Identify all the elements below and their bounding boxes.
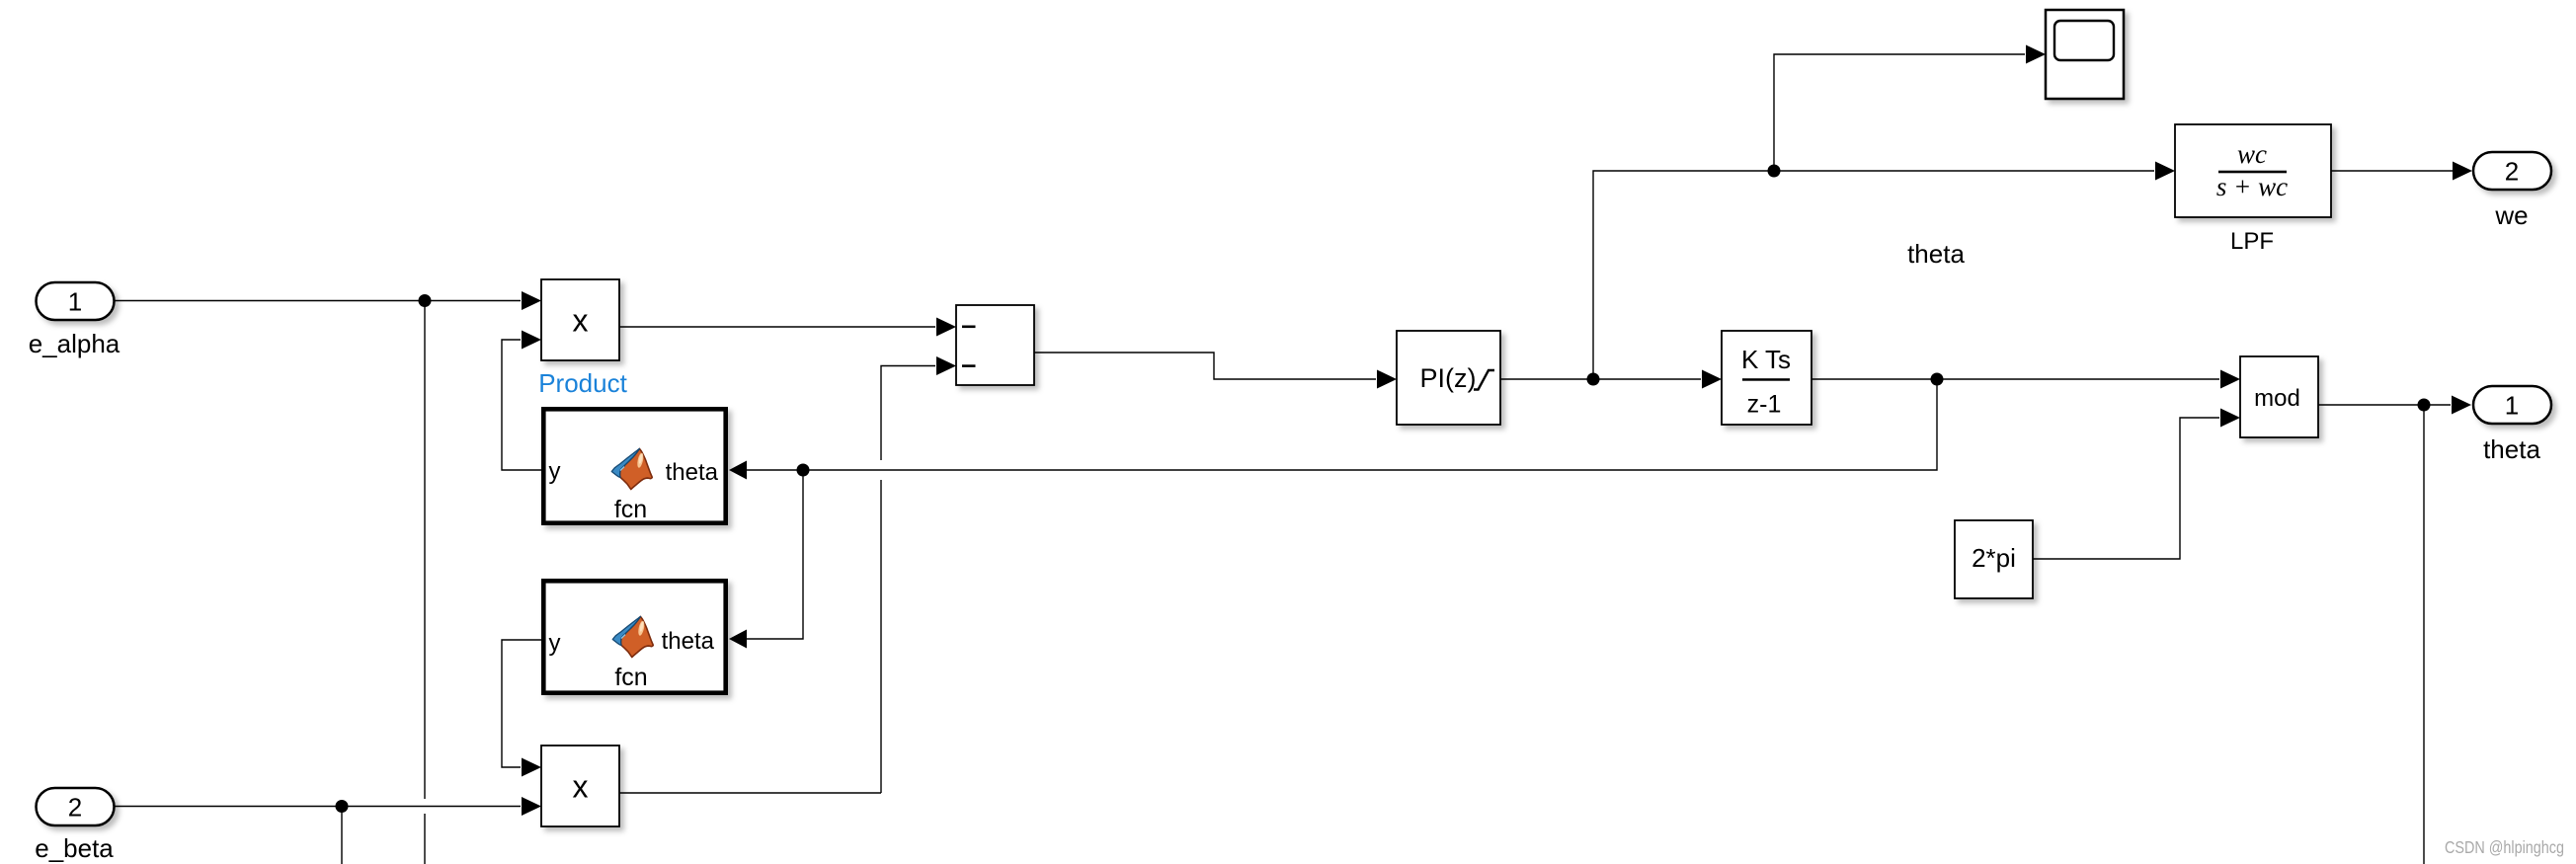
scope block xyxy=(2046,10,2124,99)
wire mod out to outport 1 xyxy=(2318,396,2471,415)
wire fcn1 y out to product P1 second input xyxy=(502,331,541,471)
svg-text:LPF: LPF xyxy=(2230,228,2274,255)
svg-text:2*pi: 2*pi xyxy=(1972,543,2016,573)
PI(z) discrete PID controller block xyxy=(1397,331,1500,425)
svg-text:we: we xyxy=(2494,200,2528,230)
constant 2*pi xyxy=(1955,520,2033,598)
node junction on LPF wire xyxy=(1768,165,1781,178)
product P2 block xyxy=(541,746,619,826)
MATLAB function block fcn2 (flipped) xyxy=(543,581,725,692)
svg-text:theta: theta xyxy=(2483,434,2540,464)
svg-text:1: 1 xyxy=(2505,391,2519,421)
svg-text:fcn: fcn xyxy=(614,496,647,523)
wire PI(z) out to K Ts integrator xyxy=(1500,370,1722,389)
svg-text:z-1: z-1 xyxy=(1747,391,1782,419)
svg-text:s + wc: s + wc xyxy=(2216,172,2288,201)
svg-text:CSDN @hlpinghcg: CSDN @hlpinghcg xyxy=(2445,837,2564,857)
node junction on e_beta wire xyxy=(336,800,349,813)
svg-text:theta: theta xyxy=(662,628,715,655)
wire e_beta to product P2 second input xyxy=(115,797,541,816)
svg-text:e_alpha: e_alpha xyxy=(29,329,121,358)
svg-text:2: 2 xyxy=(68,793,82,823)
svg-text:wc: wc xyxy=(2237,139,2267,169)
sum block (minus minus) xyxy=(956,305,1034,385)
svg-text:x: x xyxy=(573,303,589,339)
wire 2*pi out to mod second input xyxy=(2033,409,2240,560)
svg-text:e_beta: e_beta xyxy=(35,833,114,863)
svg-text:theta: theta xyxy=(1907,239,1965,269)
svg-text:theta: theta xyxy=(666,459,719,486)
wire e_alpha to product P1 xyxy=(115,291,541,310)
svg-text:fcn: fcn xyxy=(614,664,647,691)
wire e_alpha branch down (crossing gap at e_beta wire) xyxy=(424,301,426,864)
mod block xyxy=(2240,356,2318,437)
wire e_beta branch down xyxy=(341,807,343,864)
wire theta branch down xyxy=(2423,405,2425,864)
svg-text:K Ts: K Ts xyxy=(1741,345,1791,374)
wire branch up to scope xyxy=(1774,45,2046,172)
svg-text:mod: mod xyxy=(2254,385,2300,412)
wire K Ts out to mod (with feedback junction) xyxy=(1811,370,2240,389)
wire product P2 out to sum second input (gap at theta feedback crossing) xyxy=(619,356,956,793)
svg-text:y: y xyxy=(549,630,561,657)
wire fcn2 y out to product P2 first input xyxy=(502,640,541,777)
svg-text:x: x xyxy=(573,769,589,805)
outport 2 we xyxy=(2473,152,2551,230)
inport 2 e_beta xyxy=(35,788,114,863)
inport 1 e_alpha xyxy=(29,282,121,358)
wire theta feedback down and left to fcn1 xyxy=(729,379,1937,480)
wire LPF out to outport 2 xyxy=(2331,162,2472,181)
node junction after K Ts xyxy=(1931,373,1944,386)
node junction on theta out wire xyxy=(2418,399,2431,412)
node junction after PI(z) xyxy=(1587,373,1600,386)
outport 1 theta xyxy=(2473,386,2551,464)
wire sum out to PI(z) xyxy=(1034,353,1397,389)
node junction on e_alpha wire xyxy=(419,294,432,307)
wire feedback branch down to fcn2 xyxy=(729,470,803,649)
discrete integrator K Ts/(z-1) xyxy=(1722,331,1811,425)
node junction on feedback wire xyxy=(797,464,810,477)
svg-text:1: 1 xyxy=(68,287,82,317)
product P1 block xyxy=(541,279,619,360)
svg-text:2: 2 xyxy=(2505,157,2519,187)
svg-text:PI(z): PI(z) xyxy=(1420,363,1477,393)
wire product P1 out to sum first input xyxy=(619,318,956,337)
svg-text:y: y xyxy=(549,458,561,485)
svg-text:Product: Product xyxy=(538,368,627,398)
wire theta branch up to LPF xyxy=(1593,162,2175,380)
transfer fcn LPF wc/(s+wc) xyxy=(2175,124,2331,217)
MATLAB function block fcn1 (flipped) xyxy=(543,409,725,523)
